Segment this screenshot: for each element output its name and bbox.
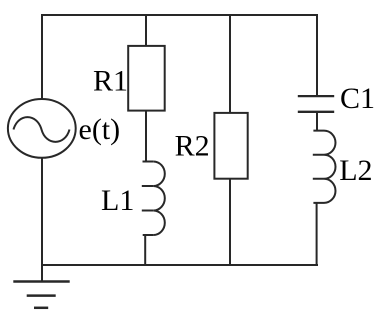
svg-text:R2: R2	[175, 130, 210, 163]
svg-text:R1: R1	[93, 65, 128, 98]
wire R2 branch top	[229, 14, 231, 113]
resistor R2	[214, 113, 247, 179]
wire C1 branch top	[316, 14, 318, 96]
inductor L2	[313, 131, 324, 203]
ground	[13, 282, 69, 308]
wire R1 branch top	[145, 14, 147, 46]
wire L1 bottom	[144, 235, 146, 266]
inductor L1	[142, 162, 154, 236]
svg-text:L1: L1	[101, 184, 134, 217]
svg-text:C1: C1	[340, 82, 375, 115]
wire left vertical upper	[41, 14, 43, 100]
wire R1 to L1	[145, 111, 147, 162]
wire L2 bottom	[316, 203, 318, 266]
source U1 circle	[8, 99, 76, 158]
resistor R1	[128, 46, 165, 111]
wire R2 bottom	[229, 179, 231, 266]
svg-text:e(t): e(t)	[79, 113, 121, 146]
svg-text:L2: L2	[339, 154, 372, 187]
source sine wave	[14, 117, 70, 142]
wire C1 to L2	[316, 112, 318, 131]
capacitor C1	[298, 96, 334, 112]
wire top horizontal	[41, 14, 318, 16]
wire left vertical lower	[41, 158, 43, 283]
wire bottom horizontal	[42, 264, 318, 266]
